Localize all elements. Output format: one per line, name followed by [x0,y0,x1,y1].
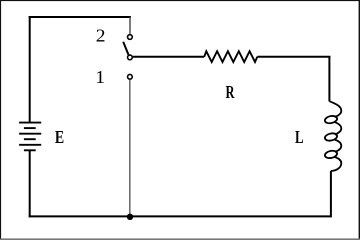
switch contact 1 terminal circle [128,74,133,79]
svg-text:L: L [295,128,304,148]
svg-text:E: E [55,129,64,148]
wire top (battery top to switch corner) [29,16,131,18]
inductor L top lead curve (elbow, right bulge, into loop 1) [329,101,341,117]
inductor L coil loop 1 [324,115,338,124]
wire left lower (battery - down to bottom corner) [29,150,31,217]
inductor L bottom lead curve (out of loop 3, right bulge, elbow) [331,157,341,171]
wire switch feed (top wire down to contact 2) [129,17,131,34]
border frame bottom [0,238,360,240]
battery E plates [19,123,41,151]
switch blade (pole toward contact 2, open) [123,42,128,55]
inductor L coil loop 3 [324,150,338,159]
wire resistor row right (resistor to top-right corner) [257,56,330,58]
inductor L arc between loop 2 and 3 [335,140,342,152]
switch common pole terminal circle [128,55,133,60]
wire contact 1 down to junction [129,80,131,214]
wire resistor row left (switch common to resistor) [133,56,204,58]
border frame top [0,0,360,1]
svg-text:2: 2 [96,26,106,46]
inductor L coil loop 2 [324,132,338,141]
resistor R zigzag [204,51,257,62]
wire right lower (inductor bottom to bottom-right corner) [330,171,332,218]
inductor L arc between loop 1 and 2 [335,122,342,134]
svg-text:R: R [226,83,236,103]
junction node dot [127,214,133,220]
wire left (top corner down to battery +) [29,16,31,123]
wire right upper (top-right corner down to inductor) [328,56,330,101]
svg-text:1: 1 [95,68,105,88]
wire bottom (left corner to right corner) [29,215,331,217]
border frame right [359,0,360,240]
switch contact 2 terminal circle [128,35,133,40]
border frame left [0,0,1,240]
